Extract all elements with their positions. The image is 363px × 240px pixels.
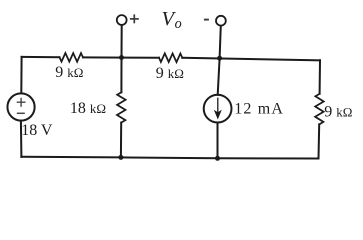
wire left edge upper (source to top wire) [20, 57, 22, 94]
wire top-right segment [182, 58, 320, 61]
voltage source minus sign [17, 112, 25, 114]
wire stub from left terminal down to node A [121, 25, 123, 58]
svg-text:9 kΩ: 9 kΩ [55, 64, 83, 81]
wire right edge lower [318, 124, 321, 158]
resistor R1 9 kOhm (top left, horizontal) [60, 53, 84, 62]
svg-text:18 V: 18 V [21, 122, 53, 139]
svg-text:18 kΩ: 18 kΩ [70, 100, 106, 117]
wire right edge upper [319, 60, 321, 94]
wire top-middle segment [83, 56, 159, 58]
resistor R3 18 kOhm (vertical) [117, 92, 126, 122]
resistor R2 9 kOhm (top middle, horizontal) [159, 53, 182, 62]
current source arrow (pointing down) [215, 98, 220, 118]
wire node A to 18k resistor top [120, 58, 122, 93]
current source I1 circle [204, 95, 232, 123]
terminal circle right (-) [216, 16, 226, 26]
wire top-left segment [22, 56, 60, 58]
terminal circle left (+) [117, 15, 127, 25]
svg-text:o: o [175, 16, 182, 32]
voltage source V1 circle [7, 93, 34, 120]
wire 18k resistor bottom to bottom wire [120, 123, 122, 158]
node B junction dot [217, 56, 222, 61]
bottom junction dot (under node A) [118, 155, 123, 160]
voltage source plus sign [17, 98, 26, 107]
svg-text:9 kΩ: 9 kΩ [324, 104, 352, 121]
node A junction dot [119, 55, 124, 60]
wire node B to current source top [218, 58, 220, 94]
plus label at left terminal [130, 14, 139, 23]
minus label at right terminal [204, 19, 209, 21]
wire left edge lower (source to bottom wire) [20, 121, 23, 157]
wire bottom [21, 157, 318, 159]
svg-text:12 mA: 12 mA [234, 100, 284, 117]
svg-text:9 kΩ: 9 kΩ [156, 65, 184, 82]
bottom junction dot (under node B) [215, 156, 220, 161]
wire stub from right terminal down to node B [220, 26, 221, 59]
resistor R4 9 kOhm (right, vertical) [315, 94, 324, 125]
wire current source bottom to bottom wire [217, 123, 219, 159]
